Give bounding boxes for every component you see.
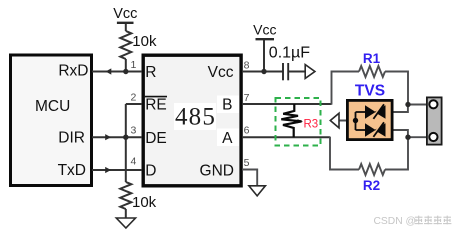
- wire TxD to D pin4: [92, 169, 142, 171]
- svg-text:RxD: RxD: [58, 63, 88, 80]
- wire R1 to node B': [385, 72, 408, 105]
- svg-text:D: D: [145, 163, 156, 180]
- wire R2 to node A': [385, 137, 408, 169]
- wire TVS common to ground arrow: [339, 120, 356, 122]
- svg-text:Vcc: Vcc: [113, 6, 137, 22]
- connector J1 pin circle upper: [429, 100, 437, 108]
- svg-text:TVS: TVS: [355, 83, 385, 100]
- ground symbol below pin5: [249, 186, 266, 196]
- wire node B' to connector: [408, 104, 429, 106]
- ground symbol right of C1: [305, 65, 315, 79]
- wire A pin6: [242, 136, 330, 138]
- R3 squiggle arrow tip: [298, 119, 304, 123]
- svg-text:A: A: [222, 130, 233, 147]
- capacitor C1 plates: [283, 63, 288, 80]
- arrowhead into DE: [105, 134, 111, 140]
- svg-text:GND: GND: [200, 163, 234, 180]
- transceiver U1 485 box: [143, 55, 241, 186]
- wire resistor to ground: [125, 209, 127, 218]
- wire DIR to DE pin3: [92, 136, 142, 138]
- resistor R_pullup 10k zigzag: [120, 31, 131, 59]
- watermark CJK glyph 1: [415, 216, 423, 225]
- arrowhead into RxD: [106, 68, 112, 74]
- resistor R2 zigzag: [359, 164, 385, 175]
- wire TVS upper to node B': [385, 105, 408, 113]
- highlight box (green dashed) around R3: [276, 98, 321, 146]
- svg-text:CSDN @: CSDN @: [374, 216, 417, 227]
- svg-text:3: 3: [131, 125, 137, 137]
- wire RxD to R pin1: [92, 71, 142, 73]
- wire RE pin2: [126, 103, 142, 105]
- TVS D1 box: [347, 100, 392, 139]
- TVS lower diode pair: [374, 123, 385, 136]
- junction node A'/connector: [405, 135, 410, 140]
- white patch behind 485: [174, 103, 216, 130]
- wire B node up to R1: [332, 72, 360, 105]
- svg-text:10k: 10k: [132, 194, 157, 211]
- wire Vcc2 stem: [263, 39, 265, 71]
- svg-text:R1: R1: [363, 51, 381, 66]
- wire cap to ground arrow: [288, 71, 305, 73]
- MCU U2 box: [11, 55, 92, 186]
- ground arrow left of TVS: [330, 113, 339, 128]
- svg-text:Vcc: Vcc: [208, 64, 234, 81]
- svg-text:DIR: DIR: [58, 130, 85, 147]
- watermark CJK glyph 2: [424, 216, 432, 225]
- wire net RE-DE vertical: [125, 104, 127, 182]
- wire GND pin5: [242, 170, 257, 186]
- RE overline: [145, 96, 167, 98]
- svg-text:DE: DE: [145, 130, 167, 147]
- junction node TVS common: [353, 118, 358, 123]
- wire TVS inner common: [356, 112, 366, 130]
- svg-text:1: 1: [131, 59, 137, 71]
- wire Vcc pin8: [242, 71, 283, 73]
- svg-text:R3: R3: [304, 119, 319, 131]
- resistor R1 zigzag: [359, 66, 385, 77]
- junction node Vcc/C1: [261, 69, 266, 74]
- watermark CJK glyph 3: [434, 216, 442, 225]
- wire resistor to node1: [125, 59, 127, 72]
- svg-text:R2: R2: [363, 178, 380, 193]
- svg-text:6: 6: [244, 125, 250, 137]
- svg-text:R: R: [145, 64, 156, 81]
- watermark CJK glyph 4: [443, 216, 451, 225]
- white patch behind A: [217, 129, 239, 147]
- svg-text:Vcc: Vcc: [253, 22, 276, 38]
- svg-text:485: 485: [175, 104, 216, 131]
- svg-text:7: 7: [244, 92, 250, 104]
- wire Vcc1 stem upper: [125, 23, 127, 31]
- wire node A' to connector: [408, 136, 429, 138]
- connector J1 body: [427, 97, 442, 144]
- resistor R_pulldown 10k zigzag: [120, 182, 131, 209]
- svg-text:0.1µF: 0.1µF: [269, 45, 310, 62]
- junction node B'/connector: [405, 102, 410, 107]
- resistor R3 hand-drawn squiggle: [281, 104, 301, 137]
- white patch behind B: [217, 96, 239, 114]
- svg-text:RE: RE: [145, 97, 167, 114]
- junction node pin3/pulldown: [123, 135, 128, 140]
- ground symbol below pulldown: [116, 218, 135, 228]
- wire A node down to R2: [330, 137, 359, 170]
- wire TVS lower to node A': [385, 130, 408, 137]
- svg-text:8: 8: [244, 59, 250, 71]
- svg-text:TxD: TxD: [58, 162, 86, 179]
- svg-text:MCU: MCU: [35, 98, 70, 115]
- power symbol Vcc1 bar: [117, 22, 134, 24]
- arrowhead into D: [105, 167, 111, 173]
- svg-text:5: 5: [244, 157, 250, 169]
- TVS upper diode pair: [374, 105, 385, 118]
- wire B pin7: [242, 103, 332, 105]
- connector J1 pin circle lower: [429, 133, 437, 141]
- power symbol Vcc2 bar: [256, 38, 275, 40]
- svg-text:10k: 10k: [132, 33, 157, 50]
- svg-text:4: 4: [131, 156, 137, 168]
- svg-text:B: B: [222, 97, 232, 114]
- junction node pin1/pullup: [123, 69, 128, 74]
- svg-text:2: 2: [131, 91, 137, 103]
